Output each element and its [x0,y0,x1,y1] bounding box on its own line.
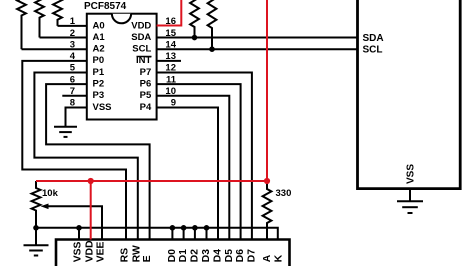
wire SDA pin15 to MCU [157,37,358,39]
resistor on A0 (top cut) [53,0,62,26]
svg-text:A0: A0 [93,20,105,31]
ground (IC VSS) [54,127,77,137]
svg-text:P7: P7 [140,67,152,78]
svg-text:A1: A1 [93,32,106,43]
red wire VDD rail down right side [36,0,267,181]
svg-text:RS: RS [120,248,131,262]
svg-text:D0: D0 [167,249,178,262]
svg-text:K: K [274,254,285,262]
LCD D0 stub [171,228,173,240]
junction dot D0 [170,225,176,231]
wire P0 (pin4) to LCD RS [22,61,126,240]
wire A0 to pin 1 [58,25,87,27]
svg-text:VDD: VDD [131,20,151,31]
resistor on A1 (middle, top cut) [35,0,44,38]
svg-text:330: 330 [276,188,292,199]
svg-text:VEE: VEE [96,241,107,262]
svg-text:A: A [262,254,273,262]
MCU box (top cut) [358,0,461,189]
red wire to LCD VDD [90,181,92,240]
svg-text:D2: D2 [190,249,201,262]
svg-text:RW: RW [131,245,142,262]
svg-text:P0: P0 [93,55,105,66]
junction dot SDA pull-up [192,35,198,41]
red wire VDD pin16 up [157,0,182,26]
svg-text:D5: D5 [224,249,235,262]
wire VSS pin8 [66,107,87,126]
wire SCL pin14 to MCU [157,48,358,50]
svg-text:VDD: VDD [84,240,95,262]
pull-up resistor on SDA (top cut) [190,0,199,38]
junction dot pot bottom [33,225,39,231]
svg-text:VSS: VSS [405,164,416,184]
svg-text:E: E [142,255,153,262]
LCD VSS stub [78,228,80,240]
svg-text:P4: P4 [140,102,152,113]
svg-text:P1: P1 [93,67,105,78]
red junction dot rail/LCD VDD [88,178,94,184]
svg-text:SDA: SDA [363,33,384,44]
red junction dot rail/330 [264,178,270,184]
wire P7 (pin12) to LCD D7 [157,73,252,240]
svg-text:SCL: SCL [132,44,151,55]
svg-text:VSS: VSS [93,102,112,113]
LCD D3 stub [206,228,208,240]
stub pin7 P3 unconnected [62,95,87,97]
junction dot LCD VSS [76,225,82,231]
svg-text:10k: 10k [42,188,59,199]
svg-text:P5: P5 [140,90,152,101]
svg-text:D1: D1 [178,249,189,262]
pot ground stub [35,228,37,246]
resistor on A2 (leftmost, top cut) [17,0,26,49]
wire A2 to pin 3 [22,48,87,50]
MCU VSS stub [409,189,411,202]
wire P6 (pin11) to LCD D6 [157,84,241,239]
junction dot D1 [181,225,187,231]
svg-text:SDA: SDA [131,32,151,43]
LCD D1 stub [183,228,185,240]
LCD header box (bottom cut) [56,240,290,266]
svg-text:PCF8574: PCF8574 [84,1,127,12]
IC notch [112,14,131,24]
junction dot D2 [192,225,198,231]
svg-text:D3: D3 [201,249,212,262]
svg-text:A2: A2 [93,44,105,55]
junction dot SCL pull-up [209,46,215,52]
ground rail wire to LCD K [36,228,278,240]
svg-text:D4: D4 [213,249,224,262]
svg-text:VSS: VSS [73,241,84,262]
op-amp U1 PCF8574 body [87,14,157,120]
svg-text:D6: D6 [235,249,246,262]
wire P2 (pin6) to LCD E [46,84,150,239]
wire A1 to pin 2 [40,37,87,39]
resistor 330 backlight [263,181,272,240]
svg-text:SCL: SCL [363,45,383,56]
wire P5 (pin10) to LCD D5 [157,96,230,240]
pull-up resistor on SCL (top cut) [208,0,217,49]
svg-text:P2: P2 [93,79,105,90]
ground (MCU VSS) [397,201,423,213]
ground (pot) [24,245,49,255]
potentiometer 10k body [32,181,41,228]
pot wiper arrow to LCD VEE [48,206,103,239]
stub pin13 INT unconnected [157,60,181,62]
wire P4 (pin9) to LCD D4 [157,107,218,239]
svg-text:P3: P3 [93,90,105,101]
junction dot D3 [204,225,210,231]
svg-text:D7: D7 [247,249,258,262]
svg-text:P6: P6 [140,79,152,90]
INT overline [137,56,152,58]
LCD D2 stub [194,228,196,240]
wire P1 (pin5) to LCD RW [34,73,137,240]
